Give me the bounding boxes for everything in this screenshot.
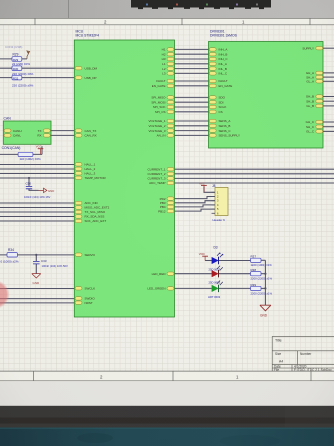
wire CURRENT_1: [175, 168, 334, 170]
ground GND (C50, arrow style): [39, 188, 55, 193]
connector J8 header: [212, 184, 229, 222]
wire SWCLK: [0, 288, 74, 290]
sheet border top zone row: [0, 18, 334, 25]
IC U3 CAN transceiver box: [2, 116, 51, 149]
wire SUPPLY: [323, 47, 334, 49]
wire VOLTAGE_1: [175, 120, 210, 122]
wire H1: [175, 48, 210, 50]
wire GL_C: [323, 130, 334, 132]
pin stubs J8: [212, 192, 216, 213]
capacitor C50: [24, 182, 51, 199]
resistor R31: [18, 152, 41, 161]
wire C33 tap: [35, 255, 37, 274]
wire ADC_TEMP: [175, 182, 334, 184]
resistor R32: [12, 75, 22, 80]
resistor R37: [251, 255, 273, 268]
wire FAULT: [175, 80, 210, 82]
LED D4 red: [209, 266, 223, 285]
wire TEMP_MOTOR: [0, 177, 74, 179]
pin numbers J8: [217, 190, 219, 215]
power VCC (header): [199, 181, 207, 192]
wire L3: [175, 72, 210, 74]
wire MISO_ADC_EXT2: [0, 207, 74, 209]
wire NRST: [0, 302, 74, 304]
sheet canvas grid: [0, 25, 334, 371]
wire EN_GATE: [175, 85, 210, 87]
wire USB_DP to MCU: [0, 77, 74, 79]
wire PB3 to header: [175, 201, 216, 203]
resistor R38: [251, 268, 273, 281]
wire PB12 to header: [175, 209, 216, 211]
wire blue LED to R37: [219, 260, 251, 262]
wire HALL_1: [0, 164, 74, 166]
wire VOLTAGE_3: [175, 130, 210, 132]
wire H3: [175, 58, 210, 60]
junction SERVO/C33: [35, 254, 37, 256]
wire GH_B: [323, 96, 334, 98]
wire R39 to bus: [261, 287, 265, 289]
wire AN_IN: [175, 134, 210, 136]
wire R37 to bus: [261, 259, 265, 261]
MCU pins left column: [75, 67, 82, 305]
sheet border bottom zone row: [0, 371, 334, 381]
DRV pins left column: [209, 48, 216, 137]
wire L1: [175, 63, 210, 65]
wire GL_B: [323, 105, 334, 107]
area below sheet: [0, 381, 334, 406]
wire SH_C: [323, 126, 334, 128]
wire GH_C: [323, 121, 334, 123]
wire RX_SDA_NSS: [0, 216, 74, 218]
resistor R30: [12, 66, 22, 71]
wire USB_DM to MCU: [0, 67, 74, 69]
darker stripe in bar: [0, 418, 334, 424]
wire PD2 to header: [175, 197, 216, 199]
wire R38 to bus: [261, 273, 265, 275]
power VCC (CAN pull-up): [36, 145, 44, 155]
wire CURRENT_2: [175, 173, 334, 175]
wire VDD to blue LED: [205, 260, 212, 262]
wire green LED to R39: [219, 287, 251, 289]
window divider line in gray band: [68, 0, 70, 18]
title block: [272, 336, 334, 371]
MCU right pin names: [147, 48, 166, 291]
wire CURRENT_3: [175, 177, 334, 179]
resistor R29: [12, 57, 22, 62]
wire SWDIO: [0, 298, 74, 300]
MCU left pin names: [85, 66, 110, 305]
wire SPI_MISO: [175, 96, 210, 98]
wire C50 tap: [29, 178, 39, 190]
LED D5 green: [208, 281, 223, 300]
pink highlight circle: [0, 280, 10, 309]
dark toolbar fragment at top: [131, 0, 271, 9]
resistor R29 stack (USB series): [12, 53, 34, 88]
wire LED_GREEN: [175, 287, 212, 289]
teal desk area: [0, 428, 334, 446]
wire VCC to header pin1: [204, 187, 215, 193]
node flag (net marker) top-left: [27, 51, 30, 59]
wire SH_B: [323, 100, 334, 102]
wire USB_DM left entry: [0, 58, 27, 60]
ground GND (LED bus): [260, 305, 271, 317]
wire red LED to R38: [219, 273, 251, 275]
wire VOLTAGE_2: [175, 125, 210, 127]
wire HALL_3: [0, 173, 74, 175]
wire L2: [175, 68, 210, 70]
junction R39/bus: [264, 287, 266, 289]
IC U2 DRV8301 gate driver box: [209, 30, 324, 148]
resistor R34 (servo): [1, 248, 19, 264]
wire CAN RX: [51, 134, 74, 136]
resistor R39: [251, 283, 273, 296]
wire R31 net: [0, 146, 42, 154]
wire GH_A: [323, 72, 334, 74]
wire SH_A: [323, 76, 334, 78]
top gray band (window chrome): [0, 0, 334, 19]
wire TX_SCL_MISO: [0, 211, 74, 213]
power VDD (LED): [199, 252, 208, 261]
capacitor C33: [33, 259, 68, 268]
CAN pins: [4, 129, 50, 137]
wire H2: [175, 53, 210, 55]
wire CAN TX: [51, 130, 74, 132]
wire HALL_2: [0, 168, 74, 170]
CAN pin names: [13, 129, 42, 138]
wire SPI_SCK: [175, 106, 210, 108]
wire LED gnd bus: [264, 260, 266, 305]
wire SCK_ADC_EXT: [0, 220, 74, 222]
LED D3 blue: [209, 245, 224, 271]
DRV pins right column: [316, 47, 323, 134]
wire SERVO: [0, 254, 74, 256]
junction TEMP_MOTOR/C50: [28, 177, 30, 179]
wire PB4 to header: [175, 205, 216, 207]
wire ADC_IND: [0, 202, 74, 204]
wire SPI_MOSI: [175, 101, 210, 103]
wire GL_A: [323, 80, 334, 82]
ground GND (C33): [32, 274, 41, 285]
wire SPI_CS: [175, 111, 210, 113]
bottom dark bar (taskbar): [0, 406, 334, 428]
junction R38/bus: [264, 273, 266, 275]
MCU pins right column: [167, 48, 174, 290]
DRV right pin names: [302, 46, 314, 133]
wire LED_RED: [175, 273, 212, 275]
DRV left pin names: [219, 48, 240, 138]
IC U1 MCU box: [74, 30, 174, 317]
